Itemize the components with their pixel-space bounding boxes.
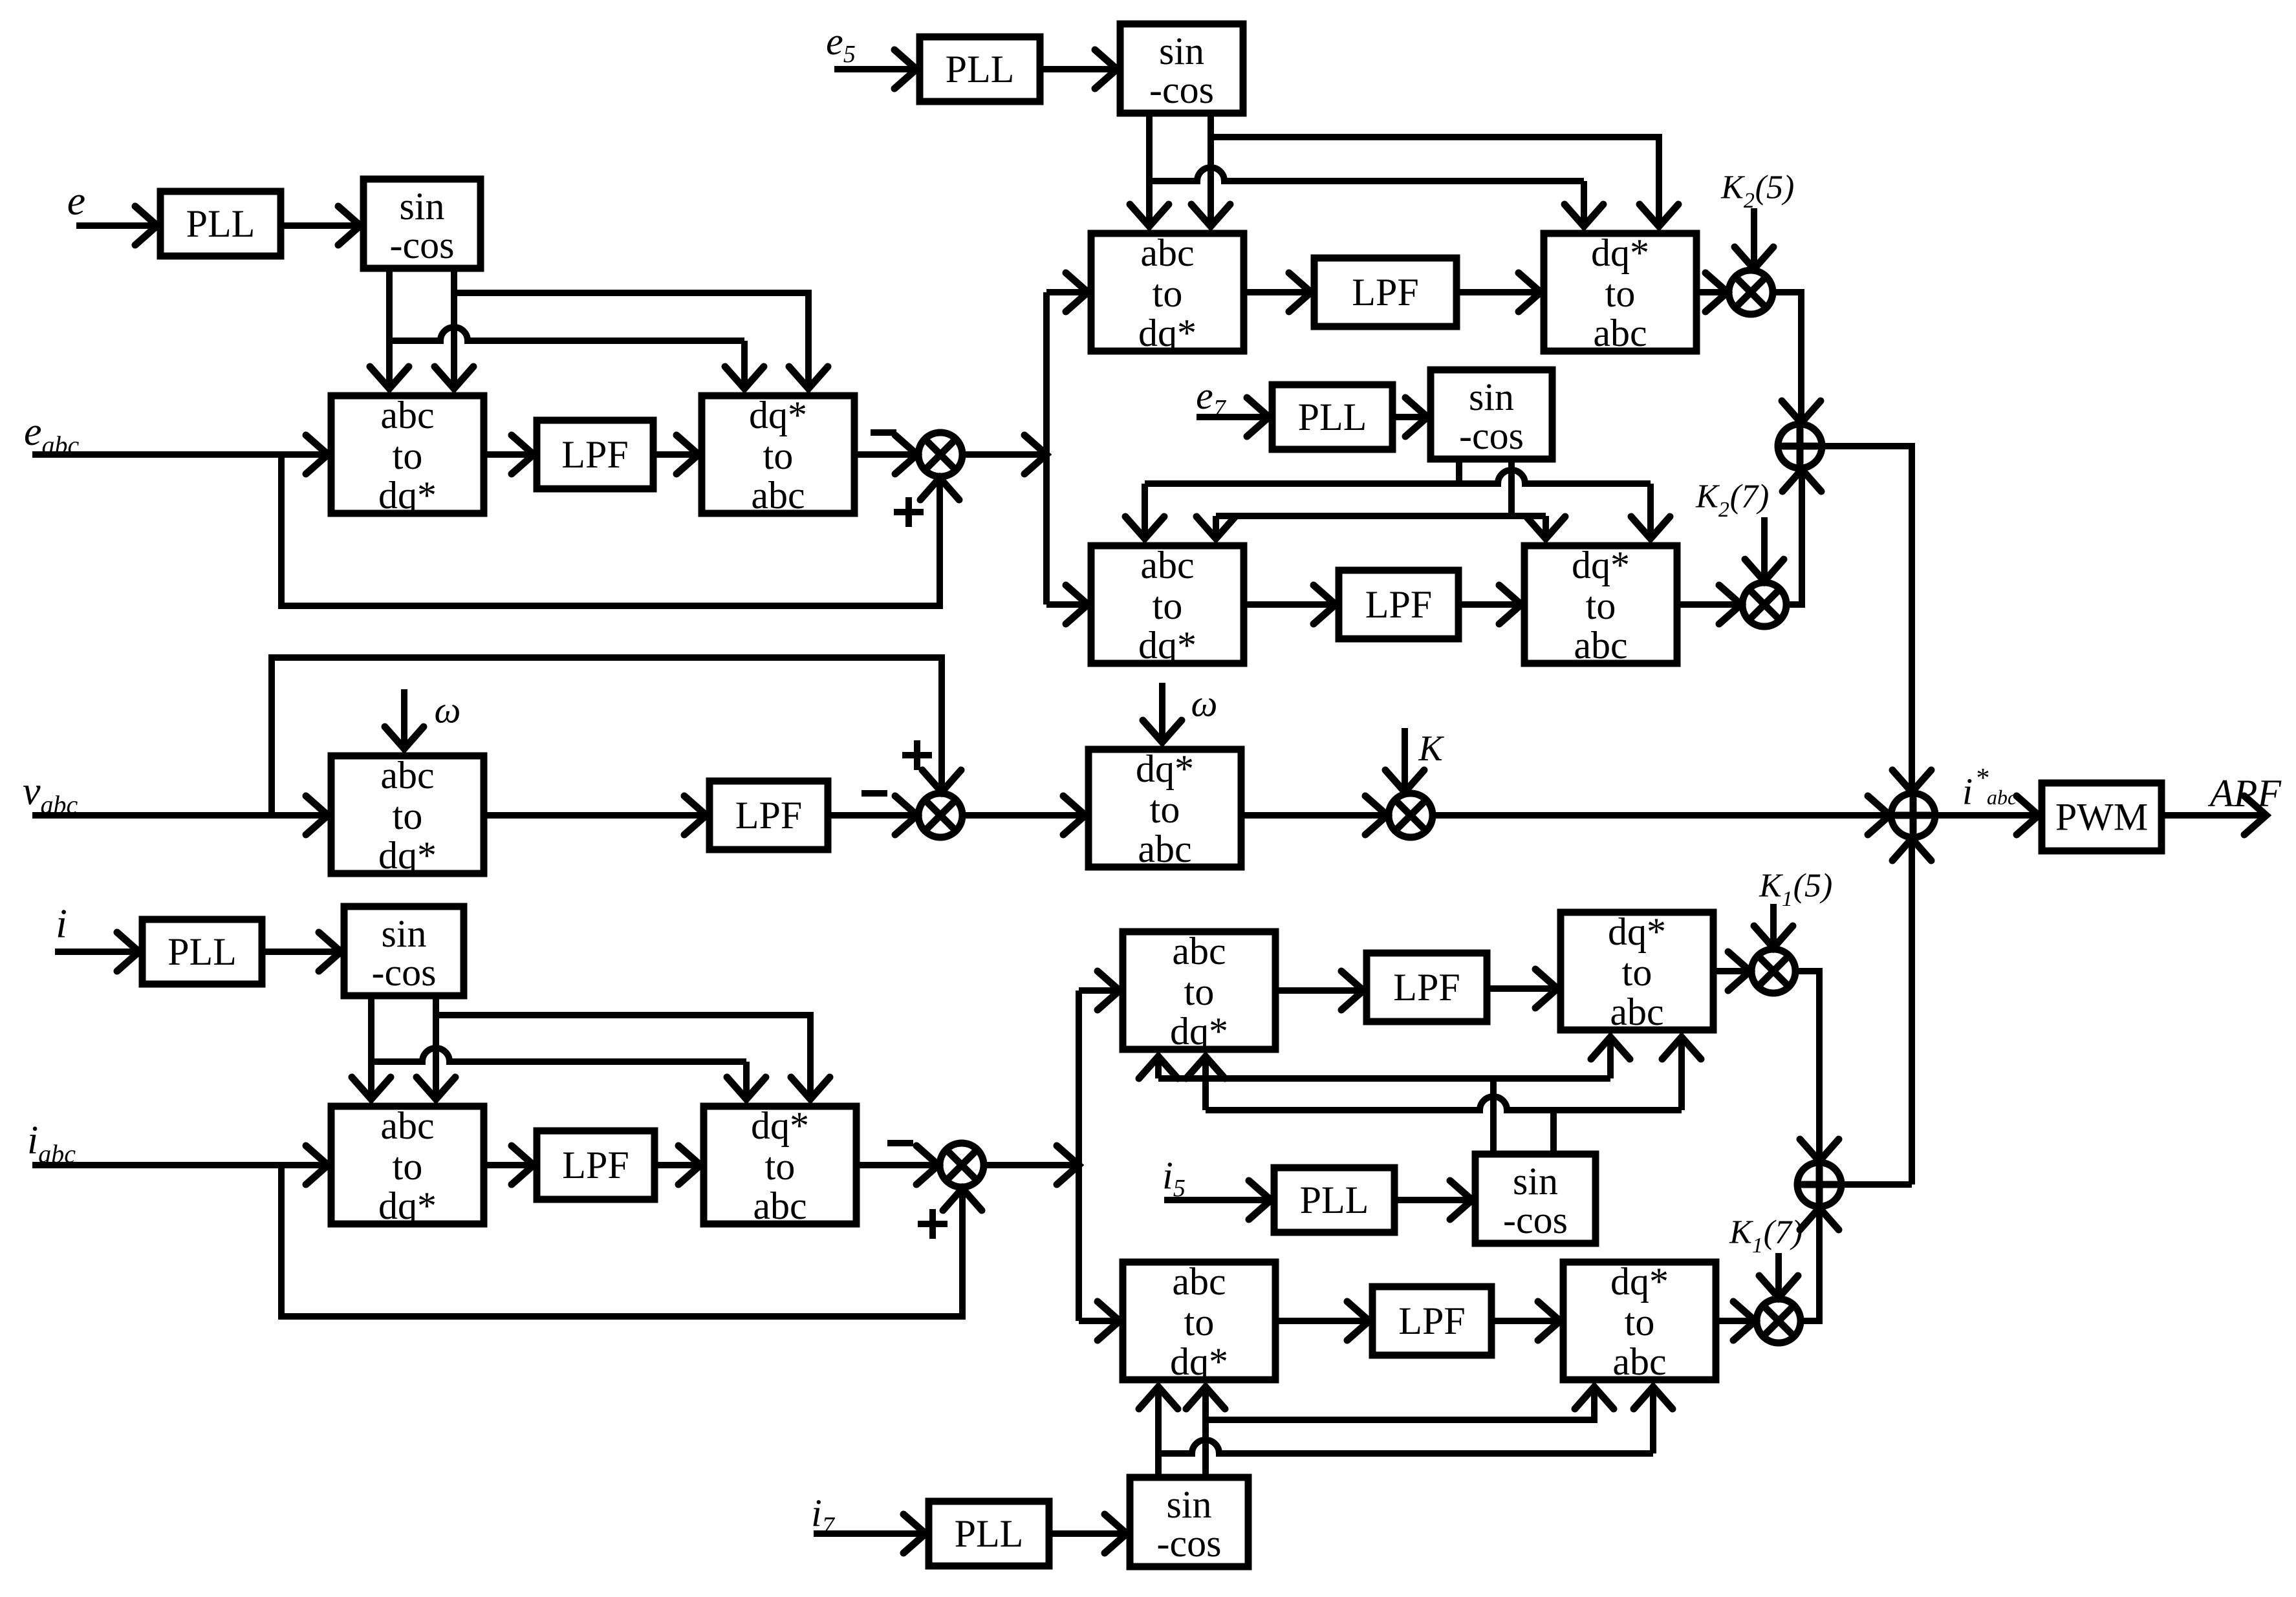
svg-text:to: to (1586, 584, 1616, 627)
multiplier K2(5) circle (1729, 270, 1773, 314)
wire i5 to PLL (1164, 1181, 1271, 1219)
wire bus sin to abc-to-dq and dq-to-abc (i5) (1158, 1075, 1610, 1082)
svg-text:sin: sin (1513, 1160, 1558, 1203)
abc-to-dq block (i5) (1123, 930, 1275, 1053)
wire bus sin output to dq-to-abc (e) (454, 293, 828, 389)
dq-to-abc block (i5) (1561, 910, 1713, 1033)
multiplier K1(7) circle (1757, 1299, 1801, 1343)
LPF block (i5) (1367, 953, 1487, 1022)
svg-text:PLL: PLL (168, 930, 237, 973)
PLL block (e5) (920, 37, 1040, 102)
svg-text:to: to (1153, 584, 1183, 627)
svg-text:abc: abc (1610, 991, 1663, 1033)
wire bus cos output to dq-to-abc with hop (i7) (1158, 1440, 1653, 1453)
wire final summer to PWM (1935, 796, 2039, 835)
wire PLL to sin-cos (e5) (1040, 50, 1117, 89)
wire bus cos right rise into dq-to-abc (i5) (1662, 1037, 1701, 1110)
svg-text:PWM: PWM (2055, 796, 2148, 839)
final summer circle (1891, 793, 1935, 837)
svg-text:(7): (7) (1730, 478, 1770, 515)
svg-text:LPF: LPF (1352, 271, 1418, 314)
svg-text:i: i (1962, 771, 1973, 813)
wire sin-cos left output up to abc-to-dq (i7) (1139, 1387, 1178, 1477)
wire sin-cos right output down to abc-to-dq (i) (417, 996, 455, 1099)
plus sign at multiplier (i) (918, 1209, 948, 1239)
svg-text:abc: abc (1172, 930, 1226, 972)
wire K1(7) gain into multiplier (1759, 1253, 1798, 1298)
wire dq-to-abc to K1(7) multiplier (i7) (1716, 1302, 1755, 1340)
svg-text:ω: ω (1191, 683, 1218, 725)
wire bus cos rise into dq-to-abc (i7) (1634, 1387, 1673, 1453)
wire sin-cos right output down to abc-to-dq (e) (435, 268, 473, 389)
wire K1(5) gain into multiplier (1754, 904, 1793, 948)
wire K1(7) multiplier output up to adder (i) (1800, 1208, 1839, 1321)
wire bus sin left drop into abc-to-dq (e7) (1125, 484, 1164, 539)
wire K multiplier output to final summer (1433, 796, 1890, 835)
svg-text:abc: abc (380, 754, 434, 797)
wire LPF to dq-to-abc (i5) (1487, 969, 1557, 1008)
dq-to-abc block (v) (1088, 747, 1241, 870)
wire multiplier output to harmonic split junction (e) (962, 435, 1046, 474)
wire bus sin to abc-to-dq and dq-to-abc with hop (e7) (1145, 470, 1651, 484)
wire bus sin output to dq-to-abc (i) (436, 1015, 830, 1099)
svg-text:PLL: PLL (946, 48, 1015, 91)
wire multiplier to dq-to-abc (v) (962, 796, 1085, 835)
PLL block (i7) (929, 1501, 1049, 1566)
dq-to-abc block (i) (704, 1104, 856, 1227)
plus sign at multiplier (v) (902, 740, 932, 770)
wire adder output to final summer bottom feed (1841, 1181, 1912, 1188)
minus sign at multiplier (i) (887, 1140, 913, 1146)
svg-text:abc: abc (380, 1104, 434, 1147)
PLL block (e7) (1272, 385, 1392, 449)
wire split junction down to e7 branch (1043, 455, 1050, 605)
svg-text:PLL: PLL (1300, 1179, 1369, 1221)
sin-cos block (i) (344, 906, 464, 996)
svg-text:e: e (67, 178, 85, 224)
wire LPF to dq-to-abc (i7) (1491, 1302, 1560, 1340)
svg-text:to: to (1605, 272, 1636, 315)
svg-text:to: to (1184, 970, 1215, 1013)
wire LPF to multiplier minus input (v) (828, 796, 917, 835)
wire dq-to-abc to K multiplier (v) (1241, 796, 1387, 835)
svg-text:dq*: dq* (1138, 312, 1197, 354)
svg-text:(5): (5) (1755, 169, 1795, 206)
multiplier circle (e) (918, 433, 962, 477)
wire i-harmonics sum up into final summer bottom (1892, 839, 1931, 1184)
wire sin-cos left stub up through hop to bus (i5) (1490, 1078, 1497, 1154)
multiplier circle (i) (940, 1143, 984, 1187)
wire adder output to final summer top (1822, 446, 1931, 792)
svg-text:to: to (393, 1145, 423, 1188)
svg-text:abc: abc (1172, 1260, 1226, 1303)
svg-text:dq*: dq* (1138, 624, 1197, 667)
wire sin-cos left output down to abc-to-dq (e) (370, 268, 409, 389)
wire abc-to-dq to LPF (i5) (1275, 971, 1363, 1010)
wire K2(5) multiplier output to adder (e) (1773, 292, 1821, 423)
wire dq-to-abc to multiplier minus input (i) (856, 1146, 938, 1184)
wire e5 to PLL (834, 50, 916, 89)
wire dq-to-abc to K2(7) multiplier (e7) (1677, 585, 1741, 624)
svg-text:PLL: PLL (955, 1512, 1024, 1555)
svg-text:PLL: PLL (186, 202, 255, 245)
adder circle (e harmonics sum) (1778, 424, 1822, 468)
wire abc-to-dq to LPF (e) (484, 435, 534, 474)
multiplier K1(5) circle (1751, 949, 1795, 993)
svg-text:i: i (56, 901, 67, 947)
svg-text:to: to (1622, 951, 1652, 994)
svg-text:LPF: LPF (1365, 583, 1432, 626)
wire dq-to-abc to multiplier minus input (e) (854, 435, 917, 474)
svg-text:abc: abc (1574, 624, 1627, 667)
wire multiplier output to harmonic split junction (i) (984, 1146, 1079, 1184)
wire bus cos output to dq-to-abc with hop (i) (371, 1048, 746, 1062)
wire i to PLL (55, 932, 139, 971)
wire bus cos left drop into abc-to-dq (e7) (1197, 516, 1235, 539)
wire bus cos output to dq-to-abc with hop (e5) (1149, 167, 1584, 181)
wire into abc-to-dq (e7) (1046, 585, 1088, 624)
sin-cos block (e) (363, 179, 481, 268)
svg-text:abc: abc (1138, 828, 1191, 870)
svg-text:abc: abc (1987, 786, 2017, 809)
wire i_abc feedback branch to multiplier plus input (i) (281, 1165, 982, 1316)
wire abc-to-dq to LPF (i7) (1275, 1302, 1369, 1340)
svg-text:LPF: LPF (1398, 1300, 1465, 1342)
wire bus sin right rise into dq-to-abc (i5) (1591, 1037, 1630, 1078)
svg-text:to: to (765, 1145, 796, 1188)
wire K2(5) gain into multiplier (1735, 208, 1773, 269)
svg-text:dq*: dq* (378, 1184, 437, 1227)
dq-to-abc block (e5) (1544, 231, 1696, 354)
svg-text:abc: abc (1593, 312, 1647, 354)
sin-cos block (e7) (1431, 370, 1552, 459)
adder circle (i harmonics sum) (1797, 1163, 1841, 1206)
PLL block (i5) (1274, 1168, 1394, 1232)
svg-text:-cos: -cos (372, 951, 437, 994)
svg-text:sin: sin (1166, 1483, 1211, 1526)
wire K2(7) gain into multiplier (1745, 517, 1784, 581)
wire bus cos to abc-to-dq and dq-to-abc (e7) (1216, 513, 1546, 519)
svg-text:dq*: dq* (751, 1104, 809, 1147)
svg-text:to: to (1184, 1301, 1215, 1344)
svg-text:abc: abc (380, 394, 434, 436)
svg-text:-cos: -cos (1459, 414, 1524, 457)
svg-text:sin: sin (381, 912, 426, 955)
wire abc-to-dq to LPF (e5) (1244, 273, 1311, 312)
wire into abc-to-dq (e5) (1046, 273, 1088, 312)
wire e7 to PLL (1197, 398, 1269, 436)
minus sign at multiplier (e) (871, 429, 896, 436)
wire bus sin right drop into dq-to-abc (e7) (1631, 484, 1670, 539)
wire omega into abc-to-dq (v) (385, 689, 424, 749)
svg-text:abc: abc (1612, 1340, 1666, 1383)
wire dq-to-abc to K1(5) multiplier (i5) (1713, 952, 1750, 991)
wire bus cos output to dq-to-abc with hop (e) (389, 327, 744, 341)
svg-text:dq*: dq* (1591, 231, 1649, 274)
wire bus cos left rise into abc-to-dq (i5) (1186, 1056, 1225, 1110)
wire LPF to dq-to-abc (i) (655, 1146, 700, 1184)
svg-text:dq*: dq* (1170, 1340, 1228, 1383)
wire v_abc to abc-to-dq (32, 796, 328, 835)
svg-text:-cos: -cos (390, 224, 455, 266)
wire i7 to PLL (814, 1514, 926, 1553)
svg-text:abc: abc (1140, 231, 1194, 274)
abc-to-dq block (e5) (1091, 231, 1244, 354)
wire PLL to sin-cos (i) (262, 932, 341, 971)
wire sin-cos right output up to abc-to-dq (i7) (1186, 1387, 1225, 1477)
svg-text:(5): (5) (1793, 868, 1833, 905)
dq-to-abc block (i7) (1563, 1260, 1716, 1383)
wire into abc-to-dq (i5) (1079, 971, 1120, 1010)
wire e_abc to abc-to-dq (e) (32, 435, 328, 474)
wire LPF to dq-to-abc (e7) (1458, 585, 1521, 624)
sin-cos block (e5) (1120, 24, 1243, 113)
dq-to-abc block (e) (702, 394, 854, 517)
LPF block (e5) (1314, 258, 1457, 327)
abc-to-dq block (i7) (1123, 1260, 1275, 1383)
wire bus sin output to dq-to-abc (i7) (1206, 1387, 1614, 1420)
LPF block (e7) (1339, 570, 1458, 639)
wire LPF to dq-to-abc (e) (653, 435, 699, 474)
wire sin-cos left output down to abc-to-dq (e5) (1130, 113, 1169, 226)
LPF block (i7) (1372, 1287, 1491, 1355)
svg-text:-cos: -cos (1149, 69, 1214, 111)
abc-to-dq block (v) (331, 754, 484, 877)
wire bus sin output to dq-to-abc (e5) (1211, 137, 1678, 226)
wire abc-to-dq to LPF (i) (484, 1146, 534, 1184)
plus sign at multiplier (e) (894, 497, 924, 527)
svg-text:LPF: LPF (561, 433, 628, 476)
svg-text:sin: sin (399, 185, 444, 228)
wire split junction vertical e5/e7 (1043, 292, 1050, 455)
wire bus cos to abc-to-dq and dq-to-abc with hop (i5) (1206, 1097, 1682, 1110)
wire PLL to sin-cos (i7) (1049, 1514, 1127, 1553)
wire into abc-to-dq (i7) (1079, 1302, 1120, 1340)
wire sin-cos left stub down to bus (e7) (1456, 459, 1462, 484)
wire sin-cos right stub down through hop to bus (e7) (1508, 459, 1515, 516)
sin-cos block (i5) (1475, 1154, 1596, 1243)
wire PLL to sin-cos (i5) (1394, 1181, 1472, 1219)
svg-text:dq*: dq* (378, 834, 437, 877)
wire e_abc feedback branch to multiplier plus input (e) (281, 455, 959, 606)
svg-text:dq*: dq* (1136, 747, 1194, 790)
svg-text:dq*: dq* (1170, 1010, 1228, 1053)
wire abc-to-dq to LPF (e7) (1244, 585, 1336, 624)
svg-text:sin: sin (1469, 376, 1514, 418)
svg-text:sin: sin (1159, 30, 1204, 72)
wire bus cos drop into dq-to-abc (i) (727, 1062, 766, 1099)
wire bus sin left rise into abc-to-dq (i5) (1139, 1056, 1178, 1078)
wire abc-to-dq to LPF (v) (484, 796, 706, 835)
LPF block (v) (709, 781, 828, 850)
wire dq-to-abc to K2(5) multiplier (e5) (1696, 273, 1727, 312)
svg-text:to: to (1625, 1301, 1655, 1344)
wire PLL to sin-cos (e7) (1392, 398, 1427, 436)
abc-to-dq block (e7) (1091, 544, 1244, 667)
svg-text:K: K (1418, 729, 1444, 769)
wire LPF to dq-to-abc (e5) (1457, 273, 1541, 312)
wire bus cos drop into dq-to-abc (e) (725, 341, 764, 389)
wire PWM output to APF (2161, 796, 2266, 835)
svg-text:dq*: dq* (1572, 544, 1630, 586)
LPF block (e) (537, 420, 653, 489)
svg-text:(7): (7) (1764, 1214, 1803, 1251)
svg-text:abc: abc (753, 1184, 807, 1227)
PLL block (i) (142, 919, 262, 984)
svg-text:PLL: PLL (1298, 396, 1367, 438)
dq-to-abc block (e7) (1524, 544, 1677, 667)
svg-text:to: to (1150, 788, 1180, 831)
multiplier K2(7) circle (1742, 583, 1786, 627)
svg-text:to: to (1153, 272, 1183, 315)
wire bus cos drop into dq-to-abc (e5) (1565, 181, 1603, 226)
svg-text:LPF: LPF (735, 794, 802, 837)
sin-cos block (i7) (1130, 1477, 1248, 1567)
wire K2(7) multiplier output up to adder (e) (1782, 469, 1821, 605)
multiplier circle (v) (918, 793, 962, 837)
wire bus cos right drop into dq-to-abc (e7) (1526, 516, 1565, 539)
svg-text:dq*: dq* (749, 394, 807, 436)
wire i_abc to abc-to-dq (i) (32, 1146, 328, 1184)
svg-text:-cos: -cos (1157, 1522, 1222, 1565)
wire K gain into multiplier (1385, 728, 1424, 792)
svg-text:ω: ω (435, 689, 461, 731)
wire split junction down to i7 branch (1076, 1165, 1082, 1321)
svg-text:LPF: LPF (1393, 966, 1460, 1009)
svg-text:to: to (393, 795, 423, 837)
svg-text:to: to (763, 434, 794, 477)
svg-text:-cos: -cos (1503, 1199, 1568, 1241)
wire sin-cos right stub up to bus (i5) (1550, 1110, 1557, 1154)
multiplier K circle (1389, 793, 1433, 837)
svg-text:to: to (393, 434, 423, 477)
svg-text:abc: abc (1140, 544, 1194, 586)
svg-text:LPF: LPF (562, 1144, 629, 1186)
svg-text:dq*: dq* (378, 474, 437, 517)
svg-text:dq*: dq* (1608, 910, 1666, 953)
svg-text:dq*: dq* (1610, 1260, 1669, 1303)
abc-to-dq block (i) (331, 1104, 484, 1227)
svg-text:abc: abc (751, 474, 805, 517)
LPF block (i) (537, 1131, 655, 1199)
minus sign at multiplier (v) (861, 790, 887, 797)
wire PLL to sin-cos (e) (281, 206, 360, 245)
wire omega into dq-to-abc (v) (1143, 683, 1182, 742)
wire sin-cos right output down to abc-to-dq (e5) (1191, 113, 1230, 226)
PLL block (e) (160, 191, 281, 256)
wire v_abc feedforward branch to multiplier plus input (272, 658, 961, 815)
PWM block (2042, 783, 2161, 851)
wire K1(5) multiplier output down to adder (i) (1795, 971, 1839, 1161)
abc-to-dq block (e) (331, 394, 484, 517)
wire split junction vertical i5/i7 (1076, 991, 1082, 1165)
wire e to PLL (76, 206, 157, 245)
wire sin-cos left output down to abc-to-dq (i) (352, 996, 391, 1099)
